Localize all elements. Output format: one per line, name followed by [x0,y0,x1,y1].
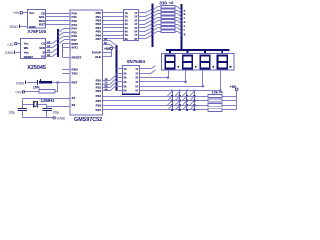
svg-text:5Y: 5Y [134,27,137,30]
svg-text:3A: 3A [125,19,128,22]
svg-text:X1: X1 [72,96,76,100]
svg-text:RESET: RESET [24,55,34,59]
svg-text:X76F100: X76F100 [28,29,47,34]
svg-text:P24: P24 [96,94,102,98]
svg-text:GND: GND [57,115,66,120]
svg-text:P25: P25 [96,99,102,103]
svg-text:12MHz: 12MHz [41,98,56,103]
svg-text:4A: 4A [105,88,108,91]
svg-text:1A: 1A [125,12,128,15]
svg-text:WE: WE [24,46,29,50]
svg-text:4A: 4A [125,23,128,26]
svg-text:3Y: 3Y [135,77,138,80]
svg-text:P23: P23 [96,89,102,93]
svg-text:RESET: RESET [72,56,82,60]
svg-text:5A: 5A [123,85,126,88]
svg-text:X2: X2 [72,103,76,107]
svg-text:RST: RST [72,81,78,85]
svg-text:SCK: SCK [39,46,45,50]
svg-text:GND: GND [16,81,25,85]
svg-text:P07: P07 [96,37,102,41]
svg-text:6A: 6A [104,42,107,45]
svg-text:+5V: +5V [230,85,237,89]
svg-text:4Y: 4Y [135,81,138,84]
svg-text:TXD: TXD [72,72,79,76]
svg-text:×8: ×8 [169,0,174,5]
svg-text:7Y: 7Y [134,34,137,37]
svg-text:330: 330 [159,1,167,6]
svg-text:2A: 2A [123,72,126,75]
svg-text:GND: GND [5,51,14,55]
svg-text:Vcc: Vcc [24,42,29,46]
svg-text:Vss: Vss [24,50,29,54]
svg-text:SI: SI [43,50,46,54]
svg-text:P27: P27 [96,108,102,112]
svg-text:2Y: 2Y [134,16,137,19]
svg-text:3Y: 3Y [134,19,137,22]
svg-text:+5V: +5V [15,90,22,94]
svg-text:8A: 8A [125,38,128,41]
svg-text:g: g [184,32,186,36]
svg-text:P26: P26 [96,103,102,107]
svg-text:+5V: +5V [13,11,20,15]
svg-text:CS: CS [41,42,45,46]
svg-text:6A: 6A [125,31,128,34]
svg-text:1Y: 1Y [134,12,137,15]
svg-text:30p: 30p [53,109,60,114]
svg-text:+3V: +3V [7,43,14,47]
svg-text:INT1: INT1 [72,46,79,50]
svg-text:GND: GND [9,25,18,29]
svg-text:10K: 10K [33,85,40,90]
svg-text:GMS97C52: GMS97C52 [74,117,102,123]
svg-text:4Y: 4Y [134,23,137,26]
svg-text:7A: 7A [125,34,128,37]
svg-text:RST: RST [39,23,45,27]
svg-text:8Y: 8Y [134,38,137,41]
svg-text:Vcc: Vcc [29,11,35,15]
svg-text:1Y: 1Y [135,68,138,71]
svg-text:+5V: +5V [104,47,111,51]
svg-text:SN75494: SN75494 [127,59,146,64]
svg-text:3A: 3A [123,77,126,80]
svg-text:2Y: 2Y [135,72,138,75]
svg-text:5A: 5A [104,38,107,41]
svg-text:5Y: 5Y [135,85,138,88]
svg-text:2A: 2A [125,16,128,19]
svg-text:5A: 5A [125,27,128,30]
svg-text:ALE: ALE [95,55,101,59]
svg-text:6Y: 6Y [134,31,137,34]
svg-text:X25045: X25045 [27,65,46,71]
svg-text:4A: 4A [123,81,126,84]
svg-text:EA/VP: EA/VP [92,51,101,55]
svg-text:30p: 30p [9,110,16,115]
svg-text:6Y: 6Y [135,90,138,93]
svg-text:1A: 1A [123,68,126,71]
svg-text:6A: 6A [123,90,126,93]
